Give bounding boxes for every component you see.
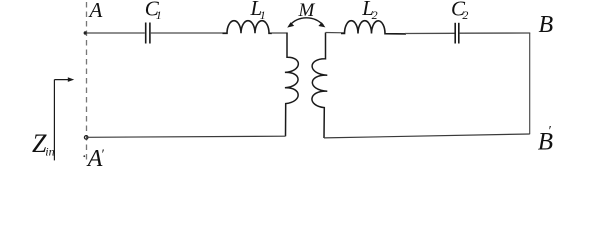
label C1	[145, 0, 162, 22]
svg-text:2: 2	[372, 8, 378, 22]
wire right vertical B to B'	[529, 33, 531, 134]
wire secondary to L2	[326, 32, 345, 34]
svg-text:M: M	[298, 0, 316, 21]
wire A to C1	[86, 32, 145, 34]
svg-text:1: 1	[260, 8, 266, 22]
mutual inductance arrow M	[287, 18, 325, 28]
wire bottom right B' to secondary	[324, 134, 530, 138]
label L2	[361, 0, 377, 22]
node A' terminal circle	[84, 136, 88, 140]
capacitor C2	[455, 23, 459, 44]
capacitor C1	[146, 23, 150, 44]
label Zin	[32, 129, 55, 159]
svg-text:2: 2	[462, 8, 468, 22]
svg-text:B: B	[539, 12, 554, 38]
dashed reference line A-A'	[86, 2, 88, 160]
label C2	[451, 0, 468, 22]
transformer primary coil	[285, 33, 298, 137]
wire L2 to C2	[405, 32, 455, 34]
svg-text:A: A	[88, 0, 103, 22]
input impedance arrow Zin	[54, 77, 74, 160]
wire bottom left primary to A'	[87, 136, 286, 137]
svg-text:in: in	[45, 144, 54, 158]
wire L1 to transformer primary	[271, 32, 288, 34]
node A terminal dot	[84, 31, 87, 34]
label B'	[538, 124, 553, 155]
wire C2 to B corner	[460, 32, 531, 34]
transformer secondary coil	[312, 33, 327, 139]
inductor L1	[223, 21, 273, 34]
label L1	[250, 0, 266, 22]
inductor L2	[341, 21, 406, 34]
svg-text:1: 1	[156, 8, 162, 22]
wire C1 to L1	[151, 32, 227, 34]
label A'	[83, 146, 104, 172]
